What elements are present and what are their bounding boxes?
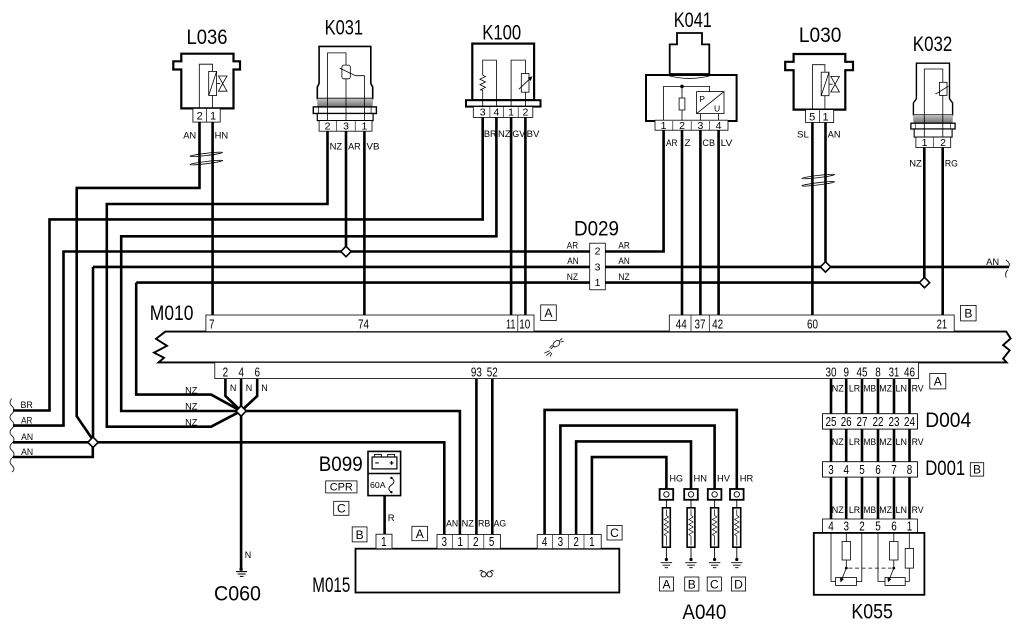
connector code B box on band — [961, 305, 977, 321]
wire RV band pin46 to K055 pin1 chain — [908, 379, 911, 519]
K041 body — [646, 75, 737, 121]
svg-text:46: 46 — [904, 364, 915, 379]
svg-text:2: 2 — [197, 111, 203, 123]
svg-text:NZ: NZ — [618, 272, 629, 283]
L030 pin strip — [806, 110, 834, 123]
svg-text:AN: AN — [446, 518, 458, 529]
K041 top plug neck — [670, 33, 710, 74]
svg-text:NZ: NZ — [185, 401, 197, 412]
wire HR A040 pin4 run to glow plug D — [545, 410, 737, 535]
svg-text:VB: VB — [367, 142, 380, 153]
ground C060 symbol — [236, 568, 247, 577]
svg-text:K041: K041 — [674, 8, 712, 32]
K031 pin strip — [319, 121, 372, 132]
svg-text:AN: AN — [567, 256, 578, 267]
svg-text:K100: K100 — [482, 21, 521, 45]
K055 pin strip 4 3 2 5 6 1 — [822, 519, 917, 533]
svg-text:AN: AN — [21, 432, 33, 443]
svg-text:AR: AR — [21, 416, 32, 427]
svg-text:93: 93 — [471, 364, 482, 379]
svg-text:A: A — [544, 306, 552, 320]
svg-text:2: 2 — [859, 518, 865, 533]
wire AN left edge no2 joining diamond from below — [13, 447, 93, 457]
svg-text:3: 3 — [595, 262, 601, 274]
svg-text:MZ: MZ — [879, 383, 892, 394]
svg-text:NZ: NZ — [498, 129, 511, 140]
svg-text:37: 37 — [695, 316, 706, 331]
wire AN L036 pin2 down-left to AN junction diamond — [77, 122, 200, 440]
svg-text:2: 2 — [223, 364, 229, 379]
svg-text:8: 8 — [907, 462, 913, 477]
svg-text:N: N — [245, 550, 252, 561]
svg-text:A: A — [934, 374, 942, 388]
svg-text:NZ: NZ — [567, 272, 578, 283]
K031 rubber ring band — [318, 99, 373, 107]
M015 box — [356, 549, 620, 593]
wire BV K100 pin2 to M010 pin10 — [524, 117, 527, 315]
svg-text:2: 2 — [940, 137, 946, 149]
K031 internal sensor symbol — [328, 53, 365, 121]
svg-text:SL: SL — [797, 130, 809, 141]
svg-text:D: D — [734, 577, 743, 591]
D029 wire labels — [567, 241, 630, 283]
connector strip B on band (pins 44 37 42 60 21) — [669, 315, 954, 332]
svg-text:B: B — [964, 306, 972, 320]
svg-text:5: 5 — [809, 111, 815, 123]
L030 internal solenoid valve symbol — [812, 65, 839, 110]
svg-text:4: 4 — [542, 534, 548, 549]
connector strip A on band (pins 7 74 11 10) — [206, 315, 534, 332]
svg-text:44: 44 — [676, 316, 687, 331]
svg-text:1: 1 — [381, 534, 387, 549]
wire CB K041 pin3 to M010 pin37 — [699, 130, 702, 315]
wire AR line: left edge to K041 pin1 through D029 pin2 — [13, 130, 664, 425]
svg-text:C060: C060 — [214, 581, 261, 605]
wire NZ band pin30 to K055 pin4 chain — [830, 379, 833, 519]
svg-text:K032: K032 — [913, 32, 953, 56]
wire AN L030 pin1 down to AN line diamond — [824, 123, 827, 263]
svg-text:L036: L036 — [187, 25, 228, 49]
svg-text:60: 60 — [807, 316, 818, 331]
svg-text:7: 7 — [209, 316, 215, 331]
svg-text:RB: RB — [478, 518, 490, 529]
connector strip below band (pins 2 4 6 93 52 30 9 45 8 31 46) — [215, 362, 919, 378]
svg-text:CB: CB — [702, 138, 715, 149]
K100 flange — [466, 100, 541, 106]
D029 pin numbers 2 3 1 — [595, 246, 601, 290]
svg-text:3: 3 — [442, 534, 448, 549]
connector code A box — [412, 526, 428, 540]
svg-text:NZ: NZ — [832, 505, 844, 516]
svg-text:1: 1 — [823, 111, 829, 123]
svg-text:NZ: NZ — [185, 385, 197, 396]
wire N band pin6 to NZ node — [241, 379, 257, 411]
K032 internal thermistor symbol — [924, 69, 948, 137]
svg-text:BR: BR — [484, 129, 497, 140]
cylinder code A box — [659, 577, 673, 591]
svg-text:RG: RG — [945, 158, 958, 169]
svg-text:R: R — [388, 513, 395, 524]
svg-text:NZ: NZ — [330, 142, 343, 153]
K100 body — [472, 44, 534, 101]
K032 body — [913, 63, 952, 115]
K032 pin strip — [916, 137, 951, 147]
svg-text:5: 5 — [859, 462, 865, 477]
svg-text:MB: MB — [864, 437, 877, 448]
connector code C box under CPR — [334, 501, 349, 515]
svg-text:HN: HN — [694, 473, 708, 484]
L036 body — [173, 54, 240, 109]
right edge AN continuation hook — [1006, 260, 1010, 278]
svg-text:2: 2 — [679, 120, 685, 132]
svg-text:AN: AN — [618, 256, 629, 267]
svg-text:8: 8 — [875, 364, 881, 379]
svg-text:U: U — [714, 104, 720, 114]
L030 body — [785, 54, 853, 110]
divider between pins 11 and 10 — [517, 315, 519, 332]
svg-text:D001: D001 — [925, 456, 965, 480]
wire SL L030 pin5 to M010 pin60 — [811, 123, 814, 316]
svg-text:1: 1 — [210, 111, 216, 123]
svg-text:31: 31 — [889, 364, 900, 379]
svg-text:NZ: NZ — [185, 417, 197, 428]
svg-text:LN: LN — [896, 383, 908, 394]
M015 wire labels AN NZ RB AG — [446, 518, 506, 529]
svg-text:AR: AR — [348, 142, 361, 153]
M015 connector A pins 3 1 2 5 box — [437, 535, 500, 549]
K032 collar flange — [911, 123, 955, 129]
svg-text:6: 6 — [254, 364, 260, 379]
battery B099 box with fuse section — [368, 451, 401, 495]
wire NZ K031 pin2 down-left to NZ node — [107, 131, 328, 427]
svg-text:LR: LR — [849, 437, 860, 448]
svg-text:27: 27 — [857, 414, 868, 429]
wire NZ node to M015 pin1 — [245, 411, 460, 535]
K031 lower body — [317, 114, 373, 121]
svg-text:AG: AG — [494, 518, 507, 529]
wire MZ band pin8 to K055 pin5 chain — [877, 379, 880, 519]
svg-text:6: 6 — [891, 518, 897, 533]
svg-text:23: 23 — [889, 414, 900, 429]
svg-text:B: B — [356, 528, 364, 542]
wire AN left edge no1 into diamond and on to M015 pin3 — [13, 442, 444, 534]
svg-text:AN: AN — [828, 130, 841, 141]
svg-text:BR: BR — [21, 400, 33, 411]
band pin numbers lower strip — [223, 364, 915, 379]
wire AR K031 pin3 down to AR line diamond — [345, 131, 348, 251]
wire N band pin2 to NZ node — [225, 379, 241, 411]
svg-text:24: 24 — [904, 414, 915, 429]
svg-text:4: 4 — [716, 120, 722, 132]
cylinder code B box — [685, 577, 699, 591]
svg-text:45: 45 — [857, 364, 868, 379]
K041 pin strip — [655, 120, 728, 130]
svg-text:4: 4 — [493, 107, 499, 119]
svg-text:HN: HN — [215, 130, 229, 141]
svg-text:5: 5 — [489, 534, 495, 549]
svg-text:30: 30 — [826, 364, 837, 379]
svg-text:11: 11 — [506, 316, 516, 331]
connector code A box below band right — [930, 373, 946, 389]
svg-text:RV: RV — [912, 437, 925, 448]
svg-text:CPR: CPR — [330, 482, 353, 494]
svg-text:1: 1 — [907, 518, 913, 533]
connector D004 box — [823, 414, 918, 429]
wire RG K032 pin2 to M010 pin21 — [941, 148, 944, 316]
wire Z K041 pin2 to M010 pin44 — [681, 130, 684, 315]
svg-text:2: 2 — [522, 107, 528, 119]
svg-text:6: 6 — [875, 462, 881, 477]
svg-text:MB: MB — [864, 505, 877, 516]
svg-text:2: 2 — [595, 246, 601, 258]
svg-text:1: 1 — [589, 534, 595, 549]
svg-text:5: 5 — [875, 518, 881, 533]
K031 body — [317, 46, 372, 98]
svg-text:M010: M010 — [150, 301, 194, 325]
svg-text:BV: BV — [527, 129, 540, 140]
svg-text:3: 3 — [697, 120, 703, 132]
svg-text:RV: RV — [912, 383, 925, 394]
svg-text:4: 4 — [828, 518, 834, 533]
wire RB band pin93 to M015 pin2 — [475, 379, 478, 535]
M015 connector B pin1 box — [376, 534, 392, 549]
svg-text:4: 4 — [238, 364, 244, 379]
svg-text:Z: Z — [684, 138, 691, 149]
svg-text:1: 1 — [595, 277, 601, 289]
svg-text:1: 1 — [922, 137, 928, 149]
band pin numbers row A — [209, 316, 947, 331]
harness spur icon inside band — [544, 338, 563, 356]
svg-text:2: 2 — [473, 534, 479, 549]
M015 connector C pins 4 3 2 1 box — [537, 535, 601, 549]
wire LR band pin9 to K055 pin3 chain — [845, 379, 848, 519]
left edge harness break wavy line — [10, 399, 14, 472]
svg-text:2: 2 — [325, 121, 331, 133]
cylinder code D box — [731, 577, 745, 591]
svg-text:3: 3 — [480, 107, 486, 119]
glow plug B (A040) — [684, 489, 698, 568]
svg-text:LR: LR — [849, 383, 860, 394]
splice mark on L030 wires — [802, 173, 835, 179]
K055 internal potentiometers — [831, 533, 914, 586]
node NZ ground junction diamond — [236, 406, 246, 416]
svg-text:AR: AR — [666, 138, 678, 149]
wire BR K100 pin3 stepping left to left edge — [13, 117, 483, 410]
node AN main junction diamond — [88, 437, 98, 447]
svg-text:C: C — [337, 502, 346, 516]
wire GV K100 pin1 to M010 pin11 — [510, 117, 513, 315]
svg-text:HR: HR — [740, 473, 754, 484]
svg-text:NZ: NZ — [462, 518, 474, 529]
connector code C box right — [607, 526, 622, 541]
L036 pin strip — [193, 108, 220, 122]
wire NZ line: from left step through D029 pin1 to K032 diamond — [136, 283, 924, 411]
wire VB K031 pin1 to M010 pin74 — [363, 131, 366, 315]
wire NZ K032 pin1 down to NZ line diamond — [923, 148, 926, 279]
K055 box — [814, 533, 925, 595]
svg-text:MZ: MZ — [879, 505, 892, 516]
wire HV A040 pin3 run to glow plug C — [560, 426, 714, 535]
glow plug D (A040) — [730, 489, 744, 568]
K032 rubber ring band — [914, 115, 953, 123]
svg-text:3: 3 — [843, 518, 849, 533]
wire HG A040 pin1 run to glow plug A — [592, 457, 667, 534]
svg-text:LN: LN — [896, 437, 908, 448]
connector code B box at D001 — [970, 463, 983, 476]
svg-text:7: 7 — [891, 462, 897, 477]
svg-text:42: 42 — [712, 316, 723, 331]
svg-text:B: B — [688, 577, 696, 591]
svg-text:RV: RV — [912, 505, 925, 516]
svg-text:N: N — [261, 383, 268, 394]
node AN splice diamond at L030 — [820, 262, 830, 272]
svg-text:AR: AR — [567, 241, 578, 252]
node NZ splice diamond at K032 — [919, 277, 929, 287]
svg-text:N: N — [230, 383, 237, 394]
svg-text:1: 1 — [508, 107, 514, 119]
glow plug C (A040) — [708, 489, 722, 568]
wire NZ K100 pin4 down-left to NZ node — [121, 117, 496, 411]
svg-text:AN: AN — [986, 257, 999, 268]
glow plug A (A040) — [660, 489, 674, 568]
svg-text:NZ: NZ — [832, 383, 844, 394]
wire MB band pin45 to K055 pin2 chain — [861, 379, 864, 519]
svg-text:K031: K031 — [325, 16, 364, 40]
wire LV K041 pin4 to M010 pin42 — [717, 130, 720, 315]
svg-text:LN: LN — [896, 505, 908, 516]
svg-text:2: 2 — [573, 534, 579, 549]
svg-text:GV: GV — [512, 129, 525, 140]
node AR splice diamond — [341, 246, 351, 256]
svg-text:25: 25 — [826, 414, 837, 429]
svg-text:NZ: NZ — [909, 158, 922, 169]
svg-text:A: A — [416, 527, 424, 541]
battery icon — [372, 454, 397, 469]
svg-text:HV: HV — [717, 473, 731, 484]
glow plug wire labels HG HN HV HR — [670, 473, 754, 484]
svg-text:M015: M015 — [312, 573, 350, 597]
svg-text:1: 1 — [661, 120, 667, 132]
CPR code box — [326, 481, 357, 493]
svg-text:1: 1 — [361, 121, 367, 133]
wire AG band pin52 to M015 pin5 — [491, 379, 494, 535]
svg-text:3: 3 — [558, 534, 564, 549]
svg-text:22: 22 — [873, 414, 884, 429]
svg-text:D029: D029 — [574, 216, 619, 240]
svg-text:HG: HG — [670, 473, 684, 484]
K032 lower body — [914, 129, 952, 137]
K041 internal symbol: resistor and P/U converter — [664, 85, 724, 121]
cylinder code C box — [707, 577, 721, 591]
svg-text:B099: B099 — [319, 452, 363, 476]
dividers pins 44 37 42 — [691, 315, 709, 332]
svg-text:LV: LV — [721, 138, 734, 149]
svg-text:A: A — [662, 577, 670, 591]
svg-text:21: 21 — [937, 316, 948, 331]
svg-text:P: P — [699, 94, 705, 104]
svg-text:52: 52 — [487, 364, 498, 379]
svg-text:C: C — [710, 577, 719, 591]
fuse 60A symbol — [389, 477, 394, 494]
svg-text:AN: AN — [21, 447, 33, 458]
L036 internal solenoid valve symbol — [199, 64, 227, 108]
K100 pin strip — [473, 107, 533, 118]
connector code B box — [352, 527, 367, 542]
svg-text:26: 26 — [841, 414, 852, 429]
wire HN A040 pin2 run to glow plug B — [576, 441, 691, 534]
svg-text:LR: LR — [849, 505, 860, 516]
wire R battery B099 to M015 connector B pin1 — [383, 496, 386, 535]
svg-text:NZ: NZ — [832, 437, 844, 448]
svg-text:L030: L030 — [799, 23, 842, 47]
svg-text:3: 3 — [828, 462, 834, 477]
svg-text:3: 3 — [343, 121, 349, 133]
K100 internal resistor loop — [480, 60, 532, 107]
M015 internal glow coil icon — [480, 571, 494, 577]
svg-text:MZ: MZ — [879, 437, 892, 448]
K031 collar flange — [313, 107, 376, 114]
svg-text:4: 4 — [843, 462, 849, 477]
wire N ground drop NZ node to C060 — [240, 415, 243, 569]
wire N band pin4 to NZ node — [240, 379, 243, 406]
svg-text:C: C — [610, 526, 619, 540]
svg-text:B: B — [973, 463, 981, 477]
connector D001 box — [823, 462, 918, 477]
svg-text:1: 1 — [457, 534, 463, 549]
harness band M010 outline with break zigzags — [154, 332, 1011, 363]
svg-text:MB: MB — [864, 383, 877, 394]
connector D029 box — [590, 243, 606, 290]
svg-text:A040: A040 — [682, 600, 726, 624]
svg-text:74: 74 — [358, 316, 369, 331]
svg-text:60A: 60A — [370, 480, 386, 490]
svg-text:D004: D004 — [925, 408, 971, 432]
splice mark on L036 wires — [190, 151, 223, 157]
wire HN L036 pin1 to M010 pin7 — [211, 122, 214, 315]
svg-text:N: N — [246, 383, 253, 394]
svg-text:AR: AR — [618, 241, 629, 252]
K055 wire labels rows NZ LR MB MZ LN RV — [832, 383, 924, 516]
connector code A box on band — [541, 305, 557, 321]
svg-text:9: 9 — [843, 364, 849, 379]
wire LN band pin31 to K055 pin6 chain — [893, 379, 896, 519]
svg-text:AN: AN — [183, 130, 196, 141]
svg-text:10: 10 — [519, 316, 530, 331]
svg-text:K055: K055 — [851, 600, 893, 624]
wire AN line: D029 pin3 line from AN diamond up to right edge hook — [93, 267, 1009, 438]
